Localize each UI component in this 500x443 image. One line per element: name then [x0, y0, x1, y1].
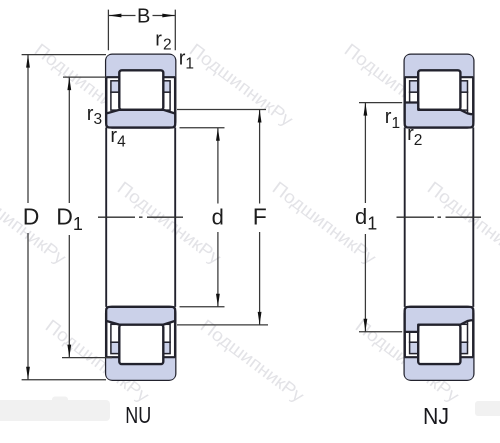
inner ring with left flange — [405, 103, 474, 128]
d1 up / down — [364, 103, 368, 116]
B left / right — [108, 14, 121, 18]
d1 dimension line — [364, 103, 366, 332]
NJ bottom bearing (mirror) — [405, 307, 474, 380]
NU centerline — [98, 216, 183, 218]
ghost band bottom-left — [0, 400, 110, 421]
svg-text:NU: NU — [125, 402, 151, 428]
NJ bore lines — [405, 128, 474, 307]
d dimension line — [217, 128, 219, 307]
NJ centerline — [397, 216, 482, 218]
d up / down — [216, 128, 220, 141]
svg-text:NJ: NJ — [423, 403, 449, 429]
F up / down — [258, 110, 262, 123]
NU top bearing cross-section — [106, 55, 175, 128]
inner ring — [106, 110, 175, 128]
type labels — [125, 402, 449, 429]
svg-text:F: F — [253, 204, 267, 230]
D extension lines — [22, 55, 106, 380]
cage left — [410, 81, 419, 92]
outer silhouette — [405, 55, 474, 128]
outer silhouette — [106, 55, 175, 128]
d1 extension lines — [359, 103, 402, 332]
D up / down — [26, 55, 30, 68]
D1 up / down — [67, 77, 71, 90]
D1 extension lines — [62, 77, 112, 358]
B dimension line — [108, 15, 175, 17]
cage left — [111, 81, 119, 92]
NU bore lines — [106, 128, 175, 307]
outer ring flange lines — [405, 76, 474, 78]
outer ring flange lines — [106, 76, 175, 78]
roller — [418, 70, 460, 110]
NJ top bearing cross-section — [405, 55, 474, 128]
roller — [119, 70, 163, 110]
B extension lines — [108, 10, 175, 51]
F extension lines — [177, 110, 268, 325]
ghost band bottom-right — [475, 401, 500, 416]
outer ring (blue band with roller notch) — [106, 55, 175, 77]
svg-text:B: B — [137, 6, 150, 28]
svg-text:d: d — [212, 205, 224, 230]
D dimension line — [27, 55, 29, 380]
F dimension line — [259, 110, 261, 325]
d extension lines — [180, 128, 225, 307]
cage right — [460, 81, 467, 92]
cage right — [163, 81, 170, 92]
outer ring (blue band with roller notch) — [405, 55, 474, 77]
D1 dimension line — [68, 77, 70, 358]
NU bottom bearing (mirror) — [106, 307, 175, 380]
arrowheads — [26, 14, 367, 380]
svg-text:D: D — [23, 204, 40, 230]
